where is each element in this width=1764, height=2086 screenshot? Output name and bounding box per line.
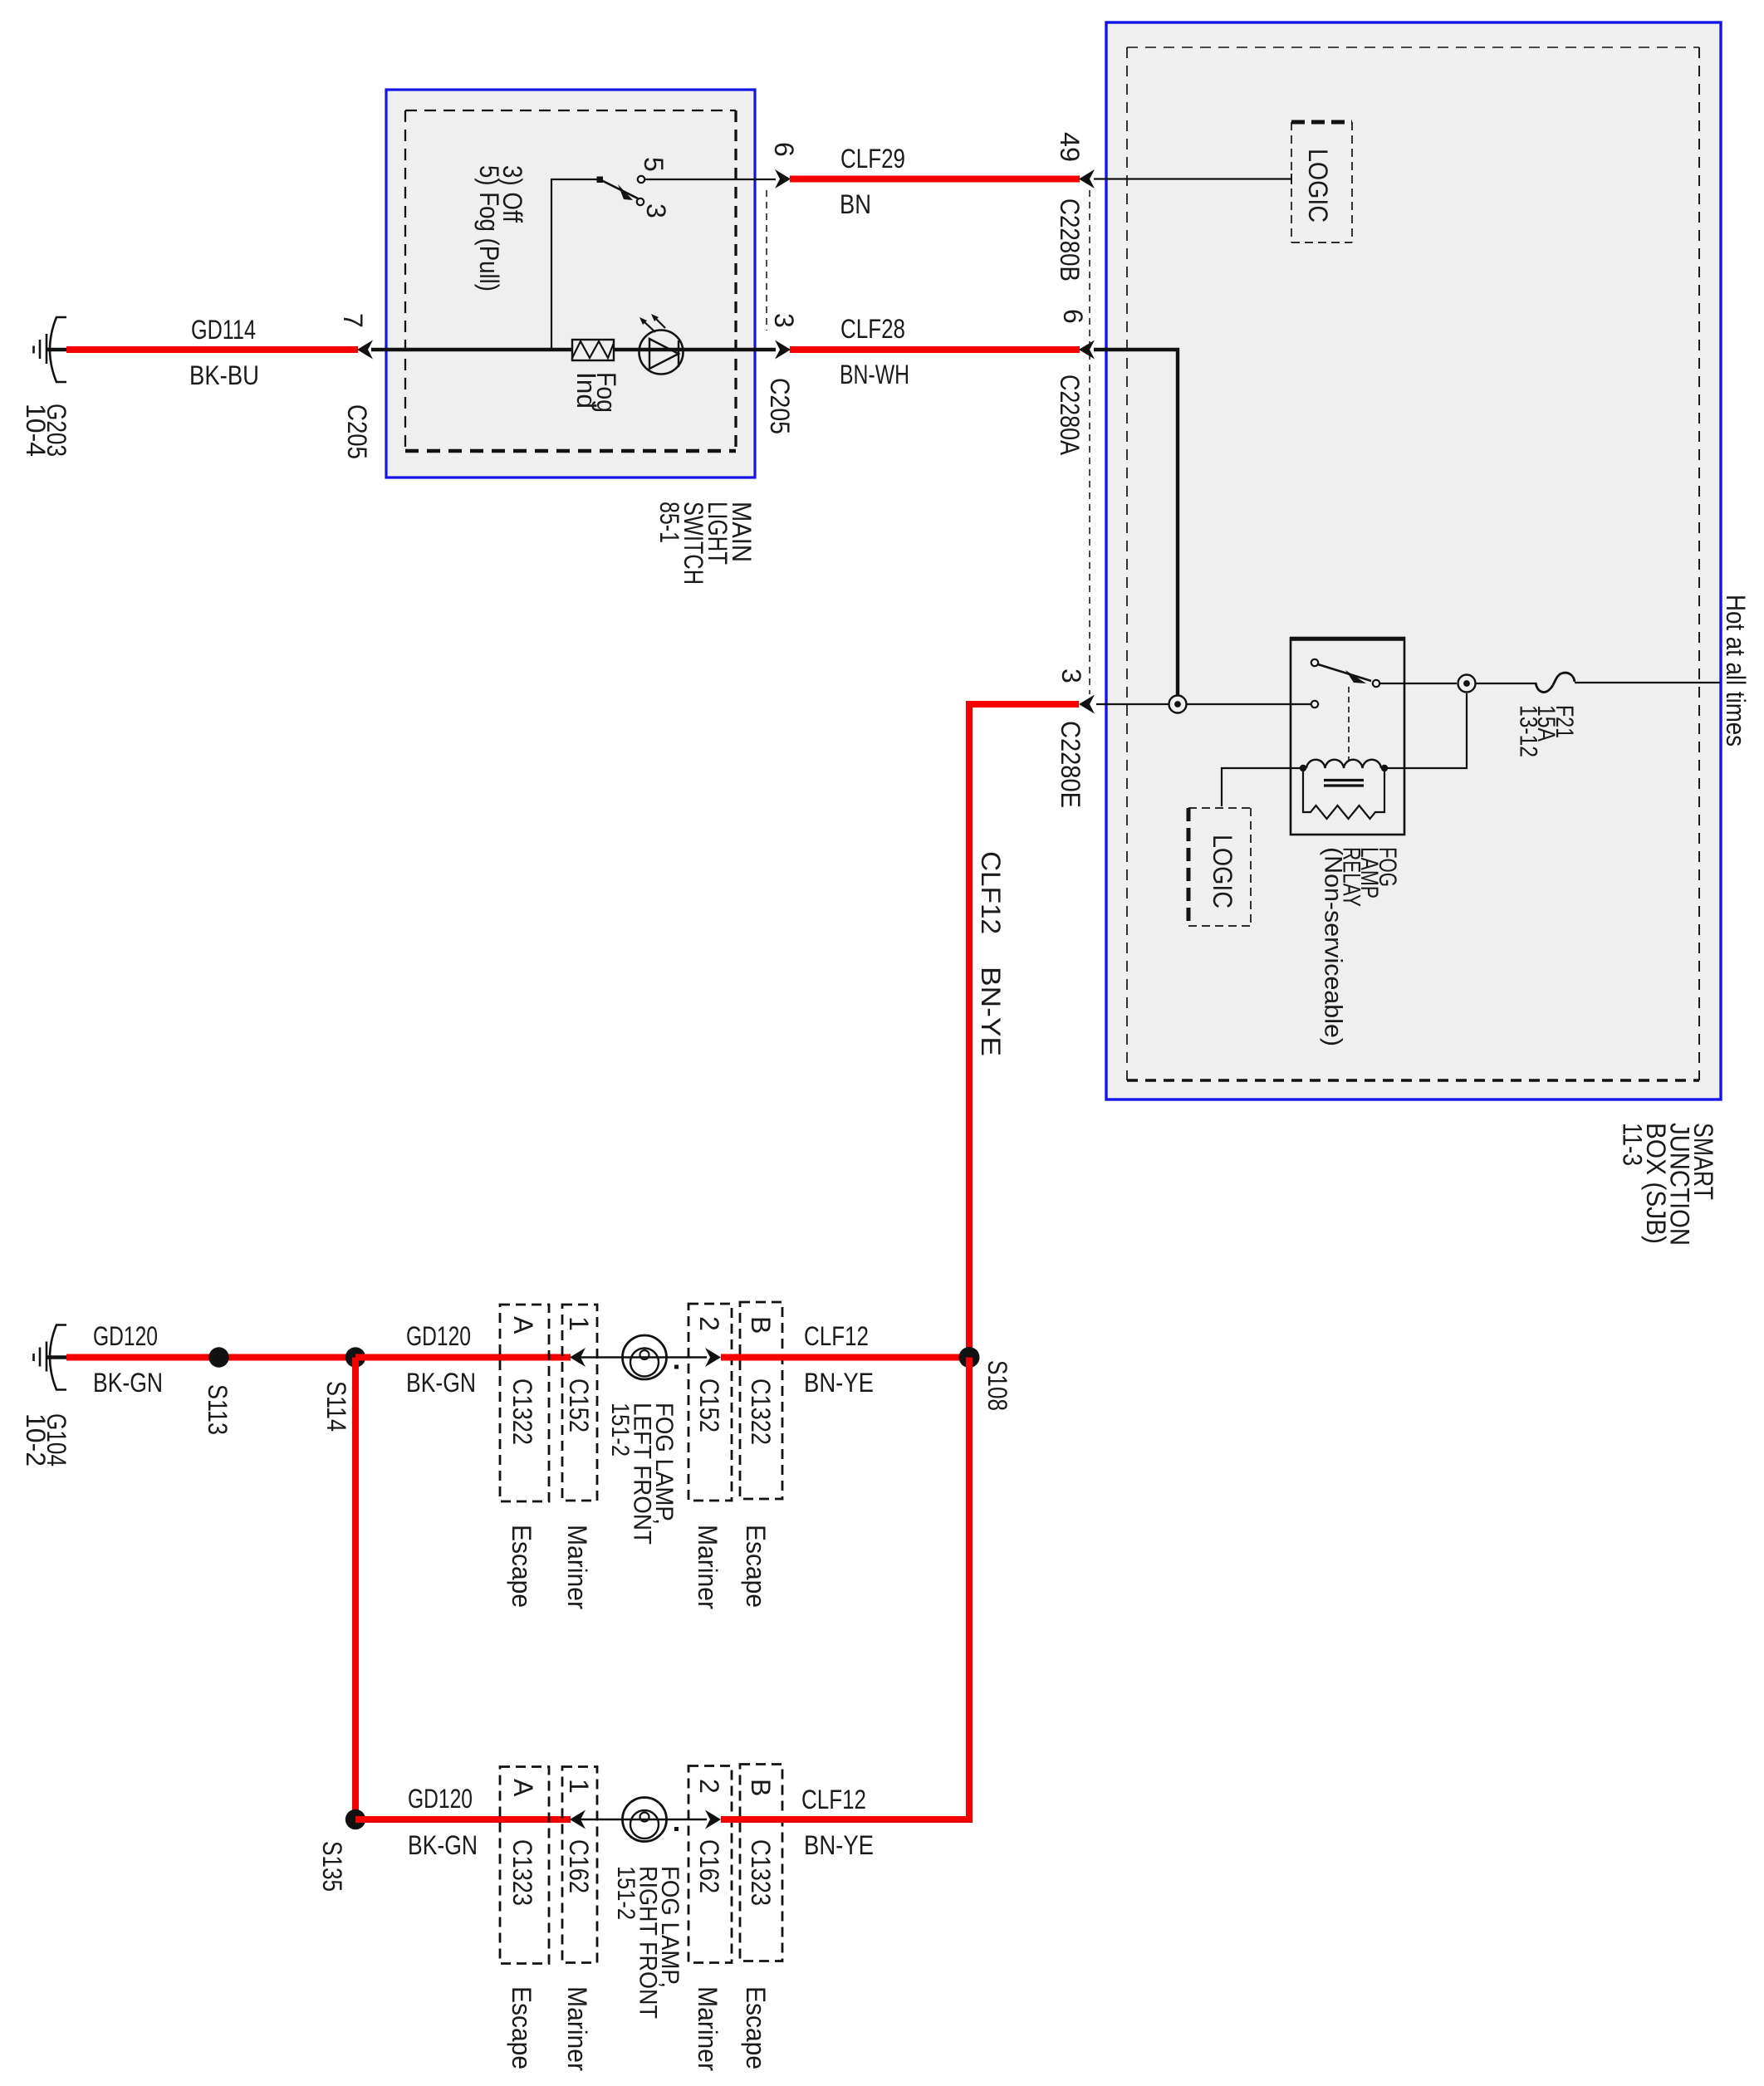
wire GD114 BK-BU (red) bbox=[66, 346, 358, 353]
wire relay contact to bullseye 2 bbox=[1379, 683, 1457, 684]
svg-text:BK-GN: BK-GN bbox=[406, 1368, 476, 1398]
svg-text:(Non-serviceable): (Non-serviceable) bbox=[1320, 847, 1347, 1046]
svg-text:Escape: Escape bbox=[507, 1525, 537, 1608]
svg-text:C1323: C1323 bbox=[746, 1839, 776, 1906]
wire CLF29 to LOGIC bbox=[1094, 178, 1291, 179]
svg-text:Mariner: Mariner bbox=[693, 1986, 723, 2071]
svg-text:A: A bbox=[508, 1779, 538, 1797]
SJB inner dashed border bbox=[1127, 47, 1699, 1080]
connector C205 pin 3 arrow bbox=[775, 340, 791, 360]
svg-text:Mariner: Mariner bbox=[562, 1986, 592, 2071]
switch riser wire bbox=[551, 179, 601, 350]
connector box C152 2 bbox=[688, 1304, 732, 1501]
wire GD120 (red, mid) bbox=[355, 1354, 571, 1361]
label LOGIC 1 bbox=[1303, 149, 1333, 223]
label S135 bbox=[317, 1841, 347, 1892]
pin label 3 (switch) bbox=[641, 203, 671, 218]
label C162 (2) bbox=[694, 1839, 724, 1893]
label C2280A bbox=[1055, 375, 1085, 456]
svg-text:BK-GN: BK-GN bbox=[408, 1830, 478, 1860]
svg-text:GD120: GD120 bbox=[408, 1784, 473, 1814]
label LOGIC 2 bbox=[1208, 835, 1237, 908]
wire CLF12 bottom right (red) bbox=[721, 1816, 973, 1823]
svg-text:Mariner: Mariner bbox=[562, 1525, 592, 1609]
relay contact lower bbox=[1311, 701, 1318, 708]
svg-text:1: 1 bbox=[564, 1779, 594, 1794]
label Hot at all times bbox=[1721, 595, 1751, 747]
connector C205 dashed link bbox=[766, 190, 767, 331]
pin label 5 bbox=[639, 157, 669, 172]
connector C2280B arrow bbox=[1079, 169, 1095, 189]
label Mariner (2) bbox=[693, 1986, 723, 2071]
svg-text:10-2: 10-2 bbox=[21, 1413, 51, 1467]
svg-text:1: 1 bbox=[564, 1316, 594, 1331]
svg-text:11-3: 11-3 bbox=[1618, 1123, 1648, 1166]
label fog lamp name bbox=[612, 1866, 684, 2019]
relay contact common bbox=[1311, 659, 1318, 666]
label SMART JUNCTION BOX (SJB) 11-3 bbox=[1618, 1123, 1719, 1246]
wire fuse to hot feed bbox=[1575, 682, 1720, 683]
svg-text:GD120: GD120 bbox=[93, 1321, 158, 1351]
svg-text:Ind: Ind bbox=[571, 372, 601, 409]
switch blade arrowhead bbox=[618, 184, 633, 200]
svg-text:7: 7 bbox=[338, 313, 368, 328]
label C1322 (A) bbox=[507, 1378, 537, 1445]
connector box C1323 A bbox=[500, 1767, 549, 1964]
svg-text:S114: S114 bbox=[321, 1381, 351, 1432]
pin 6 bbox=[769, 142, 799, 157]
svg-text:GD114: GD114 bbox=[191, 315, 256, 345]
label Escape (A) bbox=[507, 1986, 537, 2069]
svg-text:13-12: 13-12 bbox=[1514, 705, 1541, 757]
svg-text:B: B bbox=[746, 1779, 776, 1796]
pin 49 bbox=[1055, 132, 1085, 162]
pin 1 bbox=[564, 1779, 594, 1794]
svg-text:CLF12: CLF12 bbox=[801, 1785, 866, 1814]
svg-text:CLF12: CLF12 bbox=[976, 851, 1006, 934]
wire to lamp (black) bbox=[581, 1356, 707, 1358]
wire CLF12 down and across (red) bbox=[721, 1358, 969, 1820]
svg-text:C2280A: C2280A bbox=[1055, 375, 1085, 456]
label Escape (B) bbox=[741, 1525, 771, 1608]
svg-text:Escape: Escape bbox=[741, 1525, 771, 1608]
label FOG LAMP RELAY (Non-serviceable) bbox=[1320, 847, 1401, 1046]
svg-text:GD120: GD120 bbox=[406, 1321, 471, 1351]
pin 2 bbox=[694, 1779, 724, 1794]
svg-text:6: 6 bbox=[1058, 309, 1088, 324]
label C1323 (B) bbox=[746, 1839, 776, 1906]
label C2280B bbox=[1055, 198, 1085, 282]
svg-text:BN: BN bbox=[840, 189, 871, 219]
connector C2280E arrow bbox=[1079, 695, 1095, 714]
svg-text:C162: C162 bbox=[694, 1839, 724, 1893]
label fog lamp name bbox=[606, 1403, 678, 1545]
relay dashed actuator link bbox=[1348, 687, 1350, 761]
label C205 (right) bbox=[765, 378, 795, 434]
svg-text:C205: C205 bbox=[342, 404, 372, 459]
label C205 (left) bbox=[342, 404, 372, 459]
svg-text:CLF12: CLF12 bbox=[804, 1321, 869, 1351]
svg-text:BN-YE: BN-YE bbox=[804, 1368, 874, 1398]
wire S114 to S135 (red) bbox=[352, 1358, 359, 1820]
switch inner dashed border bbox=[405, 110, 736, 451]
node junction bullseye 2 bbox=[1458, 675, 1476, 693]
label Escape (A) bbox=[507, 1525, 537, 1608]
svg-text:Hot at all times: Hot at all times bbox=[1721, 595, 1751, 747]
label Mariner (2) bbox=[693, 1525, 723, 1609]
label 3) Off 5) Fog (Pull) bbox=[474, 165, 527, 291]
fog lamp bulb bbox=[623, 1335, 667, 1379]
label Mariner (1) bbox=[562, 1525, 592, 1609]
pin A bbox=[508, 1779, 538, 1797]
svg-text:Escape: Escape bbox=[741, 1986, 771, 2069]
svg-text:Escape: Escape bbox=[507, 1986, 537, 2069]
label C152 (2) bbox=[694, 1378, 724, 1432]
wire bullseye2 to fuse bbox=[1476, 683, 1536, 684]
connector C205 pin 7 arrow bbox=[357, 340, 373, 360]
fog lamp bulb bbox=[623, 1798, 667, 1842]
svg-text:C205: C205 bbox=[765, 378, 795, 434]
lamp connector arrow right bbox=[705, 1810, 721, 1829]
relay coil bbox=[1306, 760, 1381, 768]
relay blade bbox=[1318, 664, 1371, 681]
connector C2280 dashed link bbox=[1089, 190, 1090, 694]
svg-text:S135: S135 bbox=[317, 1841, 347, 1892]
svg-text:2: 2 bbox=[694, 1779, 724, 1794]
label Fog Ind bbox=[571, 372, 621, 413]
LOGIC box 2 bbox=[1188, 808, 1251, 926]
wire to lamp (black) bbox=[581, 1819, 707, 1820]
pin A bbox=[508, 1316, 538, 1334]
wire coil right to bullseye 2 bbox=[1388, 693, 1467, 768]
filament dot bbox=[674, 1365, 679, 1369]
connector box C1322 A bbox=[500, 1305, 549, 1501]
ground G203 bbox=[34, 317, 69, 382]
svg-text:LOGIC: LOGIC bbox=[1208, 835, 1237, 908]
label S113 bbox=[203, 1384, 233, 1435]
LED emission arrows bbox=[642, 320, 655, 332]
svg-text:A: A bbox=[508, 1316, 538, 1334]
svg-text:5: 5 bbox=[639, 157, 669, 172]
wire into switch (black) bbox=[371, 348, 776, 351]
resistor Fog Ind bbox=[572, 340, 614, 360]
svg-text:C162: C162 bbox=[564, 1839, 594, 1893]
wire GD120 bottom (red) bbox=[355, 1816, 571, 1823]
svg-text:85-1: 85-1 bbox=[654, 502, 684, 543]
svg-text:C1323: C1323 bbox=[507, 1839, 537, 1906]
pin 3 bbox=[769, 313, 799, 328]
label C1323 (A) bbox=[507, 1839, 537, 1906]
svg-text:BK-GN: BK-GN bbox=[93, 1368, 163, 1398]
svg-text:BN-YE: BN-YE bbox=[804, 1830, 874, 1860]
wire bullseye to relay bbox=[1187, 703, 1311, 705]
label MAIN LIGHT SWITCH 85-1 bbox=[654, 502, 757, 585]
switch contact 5 bbox=[638, 176, 644, 183]
relay contact NO bbox=[1373, 680, 1379, 687]
svg-text:CLF28: CLF28 bbox=[840, 314, 905, 344]
splice S113 bbox=[208, 1347, 228, 1367]
connector box C1322 B bbox=[740, 1302, 782, 1499]
label Escape (B) bbox=[741, 1986, 771, 2069]
svg-text:S108: S108 bbox=[982, 1360, 1012, 1411]
svg-text:151-2: 151-2 bbox=[606, 1403, 634, 1457]
switch pivot bbox=[597, 177, 604, 184]
svg-text:49: 49 bbox=[1055, 132, 1085, 162]
svg-text:Mariner: Mariner bbox=[693, 1525, 723, 1609]
splice S135 bbox=[345, 1809, 365, 1829]
pin 6 (C2280A) bbox=[1058, 309, 1088, 324]
svg-text:C1322: C1322 bbox=[746, 1378, 776, 1445]
label CLF12 (vertical) bbox=[976, 851, 1006, 934]
label C1322 (B) bbox=[746, 1378, 776, 1445]
lamp connector arrow right bbox=[705, 1348, 721, 1367]
label G203 10-4 bbox=[21, 404, 71, 457]
filament dot bbox=[674, 1827, 679, 1831]
label C152 (1) bbox=[564, 1378, 594, 1432]
pin 7 bbox=[338, 313, 368, 328]
wire CLF28 inside SJB bbox=[1094, 350, 1178, 696]
svg-text:B: B bbox=[746, 1316, 776, 1334]
svg-text:151-2: 151-2 bbox=[612, 1866, 639, 1920]
connector C2280A arrow bbox=[1079, 340, 1095, 360]
fog lamp relay box bbox=[1291, 638, 1404, 835]
connector box C152 1 bbox=[562, 1305, 597, 1501]
wire coil to LOGIC2 bbox=[1222, 768, 1300, 806]
connector box C1323 B bbox=[740, 1765, 782, 1961]
indicator LED lamp bbox=[639, 314, 684, 375]
label S108 bbox=[982, 1360, 1012, 1411]
label BN-YE (vertical) bbox=[976, 967, 1006, 1056]
connector C205 pin 6 arrow bbox=[775, 169, 791, 189]
svg-text:6: 6 bbox=[769, 142, 799, 157]
svg-text:3: 3 bbox=[769, 313, 799, 328]
LOGIC box 1 bbox=[1291, 122, 1352, 242]
svg-text:10-4: 10-4 bbox=[21, 404, 51, 457]
wire bullseye to C2280E arrow bbox=[1096, 703, 1169, 705]
svg-text:2: 2 bbox=[694, 1316, 724, 1331]
node junction bullseye (CLF28/relay) bbox=[1169, 696, 1187, 713]
pin 2 bbox=[694, 1316, 724, 1331]
relay coil core bbox=[1324, 779, 1364, 781]
main light switch box bbox=[386, 90, 755, 477]
svg-text:CLF29: CLF29 bbox=[840, 144, 905, 174]
label F21 15A 13-12 bbox=[1514, 705, 1578, 757]
svg-text:BN-YE: BN-YE bbox=[976, 967, 1006, 1056]
svg-text:C1322: C1322 bbox=[507, 1378, 537, 1445]
smart junction box SJB bbox=[1106, 22, 1721, 1099]
relay resistor bbox=[1303, 771, 1384, 819]
switch contact 3 bbox=[637, 198, 644, 205]
svg-text:5) Fog (Pull): 5) Fog (Pull) bbox=[474, 165, 504, 291]
wire CLF12 BN-YE (red, to S108) bbox=[721, 1354, 969, 1361]
connector box C162 2 bbox=[688, 1766, 732, 1963]
label S114 bbox=[321, 1381, 351, 1432]
svg-text:BK-BU: BK-BU bbox=[189, 360, 259, 390]
pin 1 bbox=[564, 1316, 594, 1331]
wire contact5 to pin6 bbox=[644, 179, 776, 180]
svg-text:C2280E: C2280E bbox=[1056, 721, 1085, 808]
svg-text:C2280B: C2280B bbox=[1055, 198, 1085, 282]
svg-text:S113: S113 bbox=[203, 1384, 233, 1435]
label G104 10-2 bbox=[21, 1413, 71, 1467]
label C162 (1) bbox=[564, 1839, 594, 1893]
wire CLF12 BN-YE vertical (red) bbox=[969, 704, 1079, 1358]
wire GD120 BK-GN (red, left) bbox=[66, 1354, 358, 1361]
ground G104 bbox=[34, 1325, 69, 1390]
pin B bbox=[746, 1316, 776, 1334]
splice S114 bbox=[345, 1347, 365, 1367]
fuse F21 15A bbox=[1536, 673, 1575, 692]
svg-text:3: 3 bbox=[1056, 668, 1086, 683]
svg-text:C152: C152 bbox=[564, 1378, 594, 1432]
switch blade bbox=[601, 180, 638, 198]
lamp connector arrow left bbox=[570, 1348, 586, 1367]
label C2280E bbox=[1056, 721, 1085, 808]
connector box C162 1 bbox=[562, 1767, 597, 1963]
lamp connector arrow left bbox=[570, 1810, 586, 1829]
svg-text:BN-WH: BN-WH bbox=[840, 360, 909, 389]
label Mariner (1) bbox=[562, 1986, 592, 2071]
svg-text:C152: C152 bbox=[694, 1378, 724, 1432]
wire CLF29 BN (red) bbox=[790, 176, 1080, 183]
pin B bbox=[746, 1779, 776, 1796]
relay blade arrowhead bbox=[1345, 670, 1366, 683]
svg-text:3: 3 bbox=[641, 203, 671, 218]
wire CLF28 BN-WH (red) bbox=[790, 346, 1080, 353]
pin 3 (C2280E) bbox=[1056, 668, 1086, 683]
svg-text:LOGIC: LOGIC bbox=[1303, 149, 1333, 223]
splice S108 bbox=[959, 1347, 980, 1368]
